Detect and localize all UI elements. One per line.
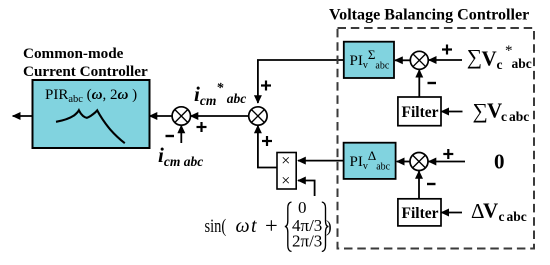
block PI-sigma: [344, 42, 394, 78]
svg-text:t: t: [251, 215, 257, 237]
sign minus at S3: [428, 82, 437, 84]
svg-text:Current Controller: Current Controller: [23, 63, 148, 80]
label sum Vc* abc: [467, 43, 532, 72]
wire: S3 to PI-sigma: [395, 59, 410, 61]
title: Common-mode Current Controller: [23, 45, 148, 80]
wire: Filter2 up into S4: [418, 171, 420, 199]
wire: i_cm feedback arrow into S1 (up): [180, 126, 182, 144]
svg-text:icm* abc: icm* abc: [194, 81, 246, 108]
wire: sum Vc* ref into S3: [429, 59, 462, 61]
summing junction S1: [172, 107, 190, 125]
svg-text:ω: ω: [236, 215, 250, 237]
summing junction S4: [410, 153, 428, 171]
block Filter2: [398, 199, 441, 226]
svg-text:c: c: [497, 57, 503, 72]
sign plus at S2 bottom: [262, 136, 272, 146]
svg-text:): ): [326, 217, 332, 236]
svg-text:V: V: [487, 99, 502, 123]
svg-text:Filter: Filter: [402, 104, 439, 121]
label sum Vc abc: [473, 99, 530, 125]
wire: S2 to S1: [191, 115, 249, 117]
svg-text:abc: abc: [512, 56, 532, 71]
sign plus at S4: [443, 149, 453, 159]
sign minus at S4: [427, 183, 436, 185]
svg-text:abc: abc: [507, 209, 527, 224]
svg-text:Voltage Balancing Controller: Voltage Balancing Controller: [329, 7, 529, 24]
sign plus at S1: [197, 122, 207, 132]
sign plus at S2 top: [261, 81, 271, 91]
wire: PIR output arrow (left): [13, 115, 33, 117]
svg-text:V: V: [482, 47, 497, 71]
svg-text:V: V: [483, 199, 498, 223]
wire: delta Vc into Filter2: [441, 212, 462, 214]
svg-text:Filter: Filter: [402, 205, 439, 222]
label delta Vc abc: [471, 199, 527, 225]
multiplier block M1: [277, 152, 296, 189]
svg-text:×: ×: [281, 152, 290, 169]
wire: PI-sigma output down into S2: [258, 60, 344, 103]
svg-text:∑: ∑: [467, 45, 482, 69]
sign plus at S3: [442, 45, 452, 55]
wire: sum Vc into Filter1: [441, 111, 462, 113]
block Filter1: [398, 97, 441, 126]
svg-text:0: 0: [494, 150, 505, 174]
svg-text:×: ×: [281, 173, 290, 190]
wire: sin vector into multiplier bottom: [298, 181, 315, 197]
svg-text:+: +: [265, 213, 278, 238]
svg-text:c: c: [499, 209, 505, 224]
wire: S4 to PI-delta: [397, 161, 410, 163]
svg-text:∑: ∑: [473, 99, 488, 123]
svg-text:PIRabc (ω, 2ω ): PIRabc (ω, 2ω ): [45, 87, 137, 105]
wire: summing S1 to PIR input: [150, 115, 173, 117]
sign minus at S1: [166, 135, 175, 137]
svg-text:2π/3: 2π/3: [292, 231, 322, 250]
wire: Filter1 up into S3: [418, 70, 420, 97]
wire: multiplier output up into S2: [258, 126, 277, 168]
svg-text:icm abc: icm abc: [158, 143, 203, 169]
dashed boundary box: [338, 28, 535, 249]
label i*_cm abc: [194, 81, 246, 108]
svg-text:Common-mode: Common-mode: [23, 45, 124, 62]
wire: PI-delta output into multiplier top: [298, 160, 344, 162]
block PI-delta: [344, 143, 396, 179]
svg-text:sin(: sin(: [205, 216, 227, 237]
svg-text:abc: abc: [509, 109, 529, 124]
svg-text:c: c: [501, 109, 507, 124]
resonance curve inside PIR block: [56, 110, 125, 143]
label sin(wt + {0,4pi/3,2pi/3}): [205, 198, 332, 252]
wire: zero ref into S4: [429, 161, 466, 163]
svg-text:0: 0: [298, 198, 307, 217]
summing junction S2: [249, 107, 267, 125]
summing junction S3: [410, 51, 428, 69]
block PIR_abc: [33, 80, 150, 148]
